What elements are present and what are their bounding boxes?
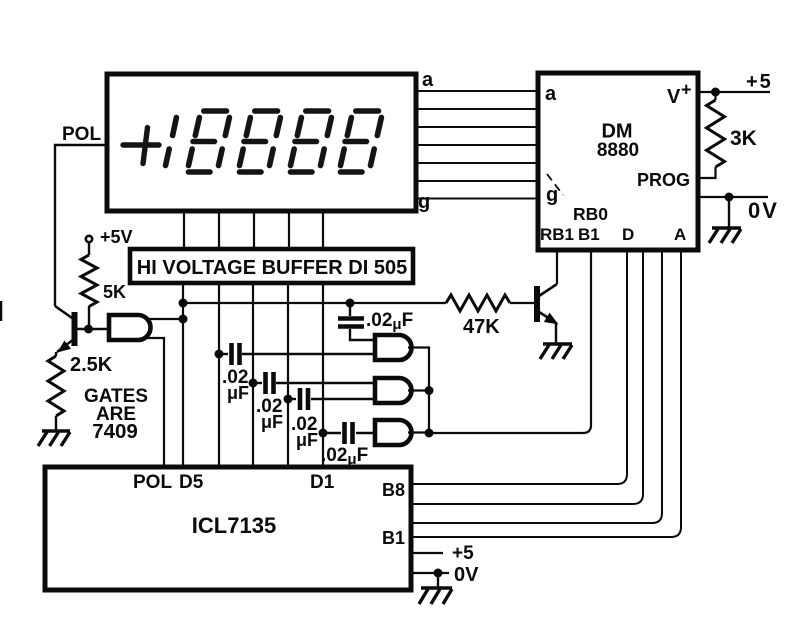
gate G2 (7409 AND): [375, 378, 411, 403]
wire buffer to ICL7135 D5 column: [182, 283, 184, 465]
wire DM RB1 pin to Q2 collector: [556, 250, 558, 284]
capacitor C2 .02uF (taps D3): [253, 382, 262, 384]
gate G4 (7409 AND gate, POL driver): [109, 315, 151, 340]
svg-text:B8: B8: [382, 480, 405, 500]
node (dot, ICL 0V ground): [434, 569, 443, 578]
wire DM pin 3 to ICL pin 3: [411, 250, 662, 523]
node (dot, G2 output junction): [425, 386, 434, 395]
resistor 5K: [81, 255, 97, 307]
svg-text:POL: POL: [62, 124, 101, 145]
wire C2 to gate G2 upper input: [276, 382, 375, 384]
capacitor C3 .02uF (taps D2): [288, 398, 296, 400]
node (dot, G3 output junction): [425, 429, 434, 438]
svg-text:+: +: [681, 80, 692, 100]
wire 3K top lead: [714, 92, 716, 100]
display digit 8 (first): [189, 111, 230, 172]
wire 5K to Q1 base node: [88, 306, 89, 329]
svg-text:5K: 5K: [103, 282, 126, 302]
wire 2.5K to ground: [55, 416, 57, 430]
svg-text:+5: +5: [452, 543, 474, 564]
svg-text:B1: B1: [578, 225, 600, 244]
wire gate G2 output: [408, 389, 429, 391]
capacitor C5 .02uF (vertical, above gate G1): [349, 303, 351, 316]
svg-text:V: V: [667, 86, 681, 108]
svg-text:47K: 47K: [463, 316, 500, 338]
svg-text:D: D: [622, 225, 634, 244]
display digit 8 (third): [291, 111, 332, 172]
wire +5V to 5K: [88, 243, 90, 255]
bus slash mark near g: [547, 174, 563, 195]
IC U3 ICL7135 box: [45, 467, 411, 590]
node (dot, D5 column / 47K wire): [179, 299, 188, 308]
svg-text:0V: 0V: [748, 198, 779, 223]
svg-text:2.5K: 2.5K: [70, 354, 113, 376]
wire ICL 0V to ground: [437, 573, 439, 588]
wire 47K to Q2 base: [510, 302, 534, 304]
svg-text:POL: POL: [133, 472, 172, 493]
wire DM A pin to ICL B1: [411, 250, 681, 537]
wire display pin to buffer (column 4): [288, 211, 290, 249]
capacitor C4 .02uF (taps D1): [323, 432, 341, 434]
wire a..g bus: display to DM8880 (7 wires): [416, 91, 538, 199]
wire C4 to gate G3 input: [356, 432, 375, 434]
node (dot, D4 column / capacitor C1): [215, 350, 224, 359]
resistor 3K: [707, 100, 725, 167]
transistor Q1 emitter lead with arrow: [57, 339, 74, 352]
ground (ICL 0V): [419, 588, 452, 604]
svg-text:RB1: RB1: [540, 225, 574, 244]
wire gate G1 output down to common node: [408, 348, 429, 434]
svg-text:g: g: [418, 191, 430, 213]
svg-text:D5: D5: [179, 472, 204, 493]
display digit 8 (second): [240, 111, 281, 172]
wire buffer to ICL7135 D1 column: [322, 283, 324, 465]
wire display pin to buffer (column 5): [322, 211, 324, 249]
transistor Q1 base bar: [72, 312, 78, 346]
wire 0V to ground: [728, 197, 730, 228]
wire DM pin 2 to ICL pin 2: [411, 250, 643, 504]
svg-text:a: a: [422, 69, 434, 91]
wire POL from display left to transistor Q1 collector: [55, 145, 107, 306]
wire 0V rail (DM right): [698, 196, 768, 198]
terminal +5V (circle): [86, 236, 92, 242]
gate G3 (7409 AND): [375, 420, 411, 445]
edge artifact mark: [0, 301, 2, 321]
wire buffer to ICL7135 D4 column: [218, 283, 220, 465]
display digit 8 (fourth): [341, 111, 382, 172]
svg-text:a: a: [545, 83, 557, 105]
ground (below 2.5K): [38, 431, 70, 446]
resistor 47K (horizontal): [446, 295, 510, 311]
node (dot, V+ / 3K junction): [711, 88, 720, 97]
IC U1 DM8880 box: [538, 73, 698, 250]
transistor Q2 base bar: [534, 286, 540, 322]
transistor Q2 collector lead: [539, 284, 557, 296]
svg-text:μF: μF: [296, 430, 318, 450]
wire Q1 emitter to 2.5K: [55, 352, 57, 356]
wire 3K bottom to PROG pin: [698, 167, 716, 178]
svg-text:7409: 7409: [92, 420, 138, 443]
wire C3 to gate G2 lower input: [311, 398, 375, 400]
wire gate G3 output: [408, 431, 429, 433]
svg-text:B1: B1: [382, 528, 405, 548]
node (dot, D5 column / gate G4 output): [179, 315, 188, 324]
svg-text:A: A: [674, 225, 686, 244]
wire gate G4 output to D5 column: [146, 318, 183, 320]
svg-text:0V: 0V: [454, 564, 479, 586]
wire display pin to buffer (column 2): [218, 211, 220, 249]
wire ICL 0V stub: [411, 572, 449, 574]
ground (DM 0V): [709, 228, 741, 243]
node (junction dot, base of Q1 / 5K): [84, 325, 93, 334]
node (dot, D2 column / capacitor C3): [284, 395, 293, 404]
wire Q2 emitter to ground: [555, 322, 557, 344]
wire Q1 base to gate G4 input: [77, 328, 109, 330]
svg-text:3K: 3K: [730, 127, 757, 150]
gate G1 (7409 AND): [375, 335, 411, 360]
svg-text:μF: μF: [227, 383, 249, 403]
transistor Q2 emitter lead with arrow: [539, 312, 555, 322]
wire gate G4 output down to ICL7135 POL pin: [147, 338, 164, 465]
wire display pin to buffer (column 3): [253, 211, 255, 249]
wire C1 to gate G1 lower input: [242, 353, 375, 355]
svg-text:RB0: RB0: [573, 204, 608, 224]
wire buffer to ICL7135 D3 column: [252, 283, 254, 465]
node (dot, D3 column / capacitor C2): [249, 379, 258, 388]
svg-text:.02μF: .02μF: [366, 310, 413, 333]
wire DM D pin to ICL B8: [411, 250, 627, 484]
node (dot, D1 column / capacitor C4): [319, 429, 328, 438]
display plus sign segment: [123, 128, 159, 164]
node (dot, capacitor C5 tap on 47K wire): [346, 299, 355, 308]
svg-text:μF: μF: [261, 412, 283, 432]
node (dot, 0V / ground): [725, 193, 734, 202]
svg-text:HI VOLTAGE BUFFER DI 505: HI VOLTAGE BUFFER DI 505: [137, 257, 407, 279]
svg-text:ICL7135: ICL7135: [192, 513, 276, 538]
display module box (5-digit 7-segment LED display): [107, 74, 416, 211]
capacitor C1 .02uF (taps D4): [219, 353, 228, 355]
wire long run D5 node to 47K resistor: [183, 302, 446, 304]
buffer box U2: HI VOLTAGE BUFFER DI 505: [130, 249, 413, 283]
wire gates common node to DM8880 B1 pin: [429, 250, 591, 433]
display digit 1 (segments b,c): [166, 118, 177, 166]
svg-text:D1: D1: [310, 472, 335, 493]
svg-text:8880: 8880: [597, 140, 639, 161]
wire buffer to ICL7135 D2 column: [287, 283, 289, 465]
svg-text:PROG: PROG: [637, 170, 690, 190]
svg-text:+5V: +5V: [100, 227, 133, 247]
svg-text:+5: +5: [746, 71, 773, 93]
transistor Q1 collector lead: [55, 306, 72, 318]
wire V+ to +5: [698, 91, 770, 93]
ground (Q2 emitter): [540, 344, 572, 359]
wire ICL +5 stub: [411, 552, 443, 554]
wire display pin to buffer (column 1): [183, 211, 185, 249]
resistor 2.5K: [48, 356, 64, 416]
